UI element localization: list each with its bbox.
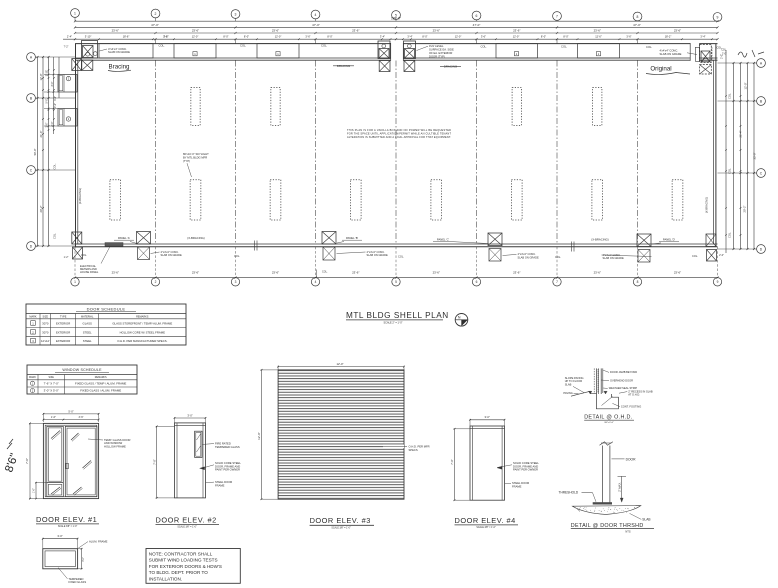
left grid bubbles A-D xyxy=(27,53,38,251)
threshold detail title xyxy=(571,523,654,533)
BRACING label left-center with strike xyxy=(333,64,354,68)
svg-text:5: 5 xyxy=(395,280,397,284)
svg-text:188'-0": 188'-0" xyxy=(391,17,401,21)
svg-text:COL.: COL. xyxy=(240,44,247,48)
door elevation 2 dimensions xyxy=(152,413,206,498)
door elevation 3 note xyxy=(383,444,430,451)
detail at OHD ground and footing xyxy=(571,391,618,409)
svg-text:COL.: COL. xyxy=(81,253,87,257)
column cluster at panel D xyxy=(637,234,651,262)
vanilla box note xyxy=(347,128,451,139)
svg-text:SOLID CORE STEEL: SOLID CORE STEEL xyxy=(513,461,539,465)
door elevation 2 steel door xyxy=(175,423,206,498)
window type detail xyxy=(42,534,108,584)
svg-text:9'x9' LEVEL: 9'x9' LEVEL xyxy=(429,44,444,48)
svg-text:DOOR SCHEDULE: DOOR SCHEDULE xyxy=(87,306,126,311)
svg-text:7'-0": 7'-0" xyxy=(152,459,156,464)
svg-text:TO BLDG. DEPT. PRIOR TO: TO BLDG. DEPT. PRIOR TO xyxy=(149,570,208,575)
svg-text:1'-6": 1'-6" xyxy=(34,488,36,493)
bottom dimension line xyxy=(74,270,719,279)
svg-text:TEMPERED: TEMPERED xyxy=(69,577,84,581)
svg-text:SCALE 3/8" = 1'-0": SCALE 3/8" = 1'-0" xyxy=(177,526,197,529)
svg-text:2" MAX.: 2" MAX. xyxy=(617,482,621,492)
svg-text:3'-0": 3'-0" xyxy=(485,415,490,419)
svg-text:(X-BRACING): (X-BRACING) xyxy=(187,236,204,240)
svg-text:2'-4": 2'-4" xyxy=(67,35,72,39)
window unit on left wall lower xyxy=(58,109,77,127)
svg-text:COL.: COL. xyxy=(728,168,732,174)
handwritten markup Original xyxy=(646,66,690,75)
svg-text:DETAIL @ DOOR THRSHD: DETAIL @ DOOR THRSHD xyxy=(571,523,644,529)
right dimension lines xyxy=(718,50,756,253)
svg-text:7'-6" X 7'-0": 7'-6" X 7'-0" xyxy=(44,381,59,385)
svg-text:2'-0": 2'-0" xyxy=(54,103,57,108)
svg-text:1'-2": 1'-2" xyxy=(64,256,69,259)
svg-text:PANEL 'B': PANEL 'B' xyxy=(346,236,359,240)
column cluster near grid 9 with exterior door xyxy=(695,45,727,75)
svg-text:23'-6": 23'-6" xyxy=(674,28,681,32)
title MTL BLDG SHELL PLAN xyxy=(346,311,449,325)
svg-text:FOR THE SPACE UNTIL APPLICATIO: FOR THE SPACE UNTIL APPLICATION/PERMIT W… xyxy=(347,132,451,136)
svg-text:COL.: COL. xyxy=(321,44,328,48)
svg-text:3'-4": 3'-4" xyxy=(700,35,705,39)
svg-text:SLAB: SLAB xyxy=(565,382,572,386)
handwritten markup Bracing xyxy=(108,64,131,72)
svg-text:3'-0": 3'-0" xyxy=(57,534,62,538)
svg-text:COL.: COL. xyxy=(53,163,57,169)
svg-text:12'-0": 12'-0" xyxy=(455,35,462,39)
svg-text:(TYP): (TYP) xyxy=(183,159,190,163)
top dimension line 47'-0" tier xyxy=(74,23,719,29)
svg-text:OVERHEAD DOOR: OVERHEAD DOOR xyxy=(610,379,633,383)
svg-text:NTS: NTS xyxy=(625,529,630,533)
svg-text:SIZE: SIZE xyxy=(43,315,49,318)
svg-text:FIXED GLASS / TEMP / ALUM. FRA: FIXED GLASS / TEMP / ALUM. FRAME xyxy=(75,381,126,385)
svg-text:COL.: COL. xyxy=(481,44,488,48)
svg-text:23'-6": 23'-6" xyxy=(352,28,359,32)
panel C label xyxy=(433,238,488,244)
svg-text:8: 8 xyxy=(637,280,639,284)
top dimension line detail tier xyxy=(63,35,719,41)
svg-text:DOOR, FRAME AND: DOOR, FRAME AND xyxy=(513,464,538,468)
svg-text:12'-0": 12'-0" xyxy=(39,74,43,81)
svg-text:47'-0": 47'-0" xyxy=(473,23,481,27)
svg-text:COL.: COL. xyxy=(159,44,166,48)
svg-text:TEMPERED GLASS: TEMPERED GLASS xyxy=(215,445,240,449)
svg-text:EXTERIOR: EXTERIOR xyxy=(56,339,70,343)
svg-text:12'-0": 12'-0" xyxy=(595,35,602,39)
door elevation 1 note xyxy=(88,438,130,449)
svg-text:SCALE 3/8" = 1'-0": SCALE 3/8" = 1'-0" xyxy=(476,526,496,529)
svg-text:6: 6 xyxy=(476,14,478,18)
svg-text:PANEL 'A': PANEL 'A' xyxy=(118,236,131,240)
svg-text:8: 8 xyxy=(637,15,639,19)
threshold detail door label xyxy=(612,457,637,461)
svg-text:7: 7 xyxy=(556,14,558,18)
svg-text:SPECS: SPECS xyxy=(409,448,418,452)
svg-text:GLASS: GLASS xyxy=(83,322,92,326)
svg-text:7: 7 xyxy=(556,280,558,284)
svg-text:3'-6": 3'-6" xyxy=(626,35,631,39)
svg-text:3'-0": 3'-0" xyxy=(83,557,85,562)
svg-text:COL.: COL. xyxy=(646,45,653,49)
svg-text:MARK: MARK xyxy=(29,376,36,379)
top dimension line overall 188'-0" xyxy=(74,17,719,23)
svg-text:SLAB: SLAB xyxy=(642,518,650,522)
svg-text:5'-0": 5'-0" xyxy=(68,409,73,413)
door elevation 4 dimensions xyxy=(450,415,505,501)
column cluster left of panel B xyxy=(322,232,336,261)
window schedule table xyxy=(27,365,137,394)
door elevation 3 title xyxy=(310,516,374,529)
svg-text:3'-6": 3'-6" xyxy=(305,35,310,39)
door elevation 3 dimensions xyxy=(257,362,405,500)
svg-text:23'-6": 23'-6" xyxy=(192,28,199,32)
door elevation 2 notes xyxy=(200,441,242,487)
svg-text:3070: 3070 xyxy=(42,322,49,326)
svg-text:3'-10": 3'-10" xyxy=(85,35,92,39)
svg-text:DOOR ELEV. #3: DOOR ELEV. #3 xyxy=(310,516,371,525)
storefront window bay 1-2 xyxy=(99,44,153,58)
skylights dashed lower row xyxy=(110,180,683,220)
svg-text:12'-0": 12'-0" xyxy=(257,432,261,440)
pen squiggle top-right xyxy=(738,50,764,57)
svg-text:COL.: COL. xyxy=(717,46,723,49)
svg-text:3'-6": 3'-6" xyxy=(481,35,486,39)
svg-text:8'-0": 8'-0" xyxy=(422,35,427,39)
left dimension texts xyxy=(33,46,68,260)
svg-text:O.H.D. PER MANUFACTURER SPECS.: O.H.D. PER MANUFACTURER SPECS. xyxy=(117,339,167,343)
storefront window opening 5 xyxy=(578,44,620,58)
svg-text:3'-4": 3'-4" xyxy=(380,35,385,39)
svg-text:MARK: MARK xyxy=(29,315,37,318)
svg-text:2: 2 xyxy=(155,280,157,284)
column cluster bottom-right corner xyxy=(706,234,717,261)
svg-text:DOOR (TYP): DOOR (TYP) xyxy=(429,54,445,58)
svg-text:23'-6": 23'-6" xyxy=(272,270,279,274)
svg-text:DOOR: DOOR xyxy=(626,457,637,461)
top wall of building xyxy=(75,43,718,61)
column cluster at grid 2 bottom xyxy=(137,232,151,260)
svg-text:8'-0": 8'-0" xyxy=(541,35,546,39)
svg-text:TYPE: TYPE xyxy=(60,315,67,318)
svg-text:3'-0" X 5'-0": 3'-0" X 5'-0" xyxy=(44,389,59,393)
svg-text:THIS PLAN IS FOR A VANILLA BOX: THIS PLAN IS FOR A VANILLA BOX AND NO PO… xyxy=(347,128,451,132)
top dimension line 23'-6" tier xyxy=(74,28,719,34)
svg-text:7'-0": 7'-0" xyxy=(450,459,454,464)
note conc slab on grade top-left xyxy=(100,47,131,54)
door elevation 4 title xyxy=(455,516,519,529)
svg-text:N: N xyxy=(458,315,461,319)
door elevation 4 notes xyxy=(497,461,539,489)
svg-text:SCALE 2" = 1'-0": SCALE 2" = 1'-0" xyxy=(384,322,403,325)
svg-text:COL.: COL. xyxy=(53,233,57,239)
svg-text:23'-6": 23'-6" xyxy=(272,28,279,32)
detail at OHD notes xyxy=(563,370,652,408)
svg-text:4: 4 xyxy=(315,280,317,284)
svg-text:23'-6": 23'-6" xyxy=(352,270,359,274)
svg-text:HOLLOW CORE W/ STEEL FRAME: HOLLOW CORE W/ STEEL FRAME xyxy=(120,330,165,334)
svg-text:FOR EXTERIOR DOORS & HDW'S: FOR EXTERIOR DOORS & HDW'S xyxy=(149,564,222,569)
svg-text:HOUSE PANEL: HOUSE PANEL xyxy=(80,270,99,274)
svg-text:O.H.D. PER MFR: O.H.D. PER MFR xyxy=(409,444,430,448)
svg-text:STEEL DOOR: STEEL DOOR xyxy=(215,480,232,484)
svg-text:47'-0": 47'-0" xyxy=(633,23,641,27)
svg-text:4"x4'x4" CONC.: 4"x4'x4" CONC. xyxy=(108,47,127,51)
svg-text:SLAB ON GRADE: SLAB ON GRADE xyxy=(108,50,130,54)
contractor note box xyxy=(146,549,240,584)
svg-text:STEEL: STEEL xyxy=(83,330,92,334)
svg-text:23'-6": 23'-6" xyxy=(192,270,199,274)
svg-text:ALUM. FRAME: ALUM. FRAME xyxy=(89,539,108,543)
column cluster at panel C xyxy=(488,233,502,261)
wall joint ticks bottom wall xyxy=(255,241,575,252)
storefront window opening 3 xyxy=(257,44,299,58)
bottom wall of building xyxy=(75,244,718,247)
svg-text:1'-6": 1'-6" xyxy=(51,416,56,419)
window unit on left wall upper xyxy=(58,75,77,93)
svg-text:FRAME: FRAME xyxy=(512,485,522,489)
svg-text:DOOR ELEV. #2: DOOR ELEV. #2 xyxy=(156,515,217,524)
conc slab notes bottom wall xyxy=(151,250,652,260)
svg-text:SLAB ON GRADE: SLAB ON GRADE xyxy=(518,255,539,259)
svg-text:FIXED GLASS / ALUM. FRAME: FIXED GLASS / ALUM. FRAME xyxy=(80,389,121,393)
left wall of building xyxy=(76,44,78,247)
svg-text:FIRE RATED: FIRE RATED xyxy=(215,441,231,445)
storefront window opening 4 xyxy=(496,44,538,58)
svg-text:SLAB ON GRADE: SLAB ON GRADE xyxy=(660,52,682,56)
svg-text:23'-6": 23'-6" xyxy=(594,270,601,274)
right dimension texts xyxy=(719,54,756,257)
svg-text:12'-0": 12'-0" xyxy=(275,35,282,39)
svg-text:STEEL DOOR: STEEL DOOR xyxy=(512,481,529,485)
svg-text:COL.: COL. xyxy=(234,254,240,258)
svg-text:COL.: COL. xyxy=(555,255,561,259)
svg-text:(X-BRACING): (X-BRACING) xyxy=(591,237,608,241)
threshold detail door bar xyxy=(600,442,613,504)
svg-text:EXTERIOR: EXTERIOR xyxy=(56,322,70,326)
svg-text:1: 1 xyxy=(74,280,76,284)
svg-text:4'x4'x4" CONC.: 4'x4'x4" CONC. xyxy=(660,49,679,53)
svg-text:PANEL 'D': PANEL 'D' xyxy=(663,238,676,242)
svg-text:8'-0": 8'-0" xyxy=(327,35,332,39)
electrical panel on bottom wall xyxy=(80,243,123,275)
svg-text:3'-6": 3'-6" xyxy=(79,416,84,419)
svg-text:SLAB ON GRADE: SLAB ON GRADE xyxy=(603,256,624,260)
svg-text:WINDOW SCHEDULE: WINDOW SCHEDULE xyxy=(62,368,102,372)
BRACING label right-center with strike xyxy=(440,65,461,69)
svg-text:3070: 3070 xyxy=(42,330,49,334)
svg-text:20'-2": 20'-2" xyxy=(39,206,43,213)
svg-text:5'-0": 5'-0" xyxy=(45,98,48,103)
svg-text:PAINT PER OWNER: PAINT PER OWNER xyxy=(215,468,240,472)
panel B label xyxy=(337,236,362,243)
svg-text:THRESHOLD: THRESHOLD xyxy=(559,491,579,495)
svg-text:AND WINDOW: AND WINDOW xyxy=(104,441,123,445)
note conc slab on grade top-right xyxy=(660,49,698,56)
top grid bubbles 1-9 xyxy=(71,9,722,22)
svg-text:12'-0": 12'-0" xyxy=(192,35,199,39)
svg-text:12'x12': 12'x12' xyxy=(41,339,50,343)
svg-text:PANEL 'C': PANEL 'C' xyxy=(437,238,450,242)
svg-text:23'-6": 23'-6" xyxy=(674,270,681,274)
door elevation 1 title xyxy=(36,515,99,528)
svg-text:COL.: COL. xyxy=(398,254,404,258)
left dimension lines xyxy=(37,56,76,247)
column pair at grid 5 with exterior door xyxy=(378,41,416,72)
svg-text:50'-0": 50'-0" xyxy=(33,149,37,156)
svg-text:1: 1 xyxy=(74,11,76,15)
svg-text:47'-0": 47'-0" xyxy=(312,23,320,27)
svg-text:SCALE 3/8" = 1'-0": SCALE 3/8" = 1'-0" xyxy=(58,525,78,528)
svg-text:COL.: COL. xyxy=(728,93,732,99)
svg-text:23'-6": 23'-6" xyxy=(433,28,440,32)
detail at OHD title xyxy=(584,415,634,424)
handwritten 8'-6 markup xyxy=(3,439,21,474)
svg-text:9: 9 xyxy=(717,15,719,19)
svg-text:MTL BLDG SHELL PLAN: MTL BLDG SHELL PLAN xyxy=(346,311,449,320)
svg-text:SLAB ON GRADE: SLAB ON GRADE xyxy=(161,253,182,257)
door elevation 4 steel door xyxy=(470,426,505,500)
skylight note xyxy=(183,152,209,177)
svg-text:CONT. FOOTING: CONT. FOOTING xyxy=(621,404,641,408)
panel A label xyxy=(114,236,137,244)
svg-text:18'-6": 18'-6" xyxy=(123,35,130,39)
svg-text:GLASS STOREFRONT / TEMP/ ALUM.: GLASS STOREFRONT / TEMP/ ALUM. FRAME xyxy=(112,322,172,326)
threshold detail slab section xyxy=(573,506,651,522)
svg-text:NOTE: CONTRACTOR SHALL: NOTE: CONTRACTOR SHALL xyxy=(149,551,213,556)
svg-text:DOOR, FRAME AND: DOOR, FRAME AND xyxy=(215,464,240,468)
svg-text:DOOR JAMB BEYOND: DOOR JAMB BEYOND xyxy=(610,370,637,374)
right wall of building xyxy=(714,44,716,247)
svg-text:HOLLOW FRAME: HOLLOW FRAME xyxy=(104,445,126,449)
svg-text:8'-0": 8'-0" xyxy=(563,35,568,39)
COL. labels top wall xyxy=(156,39,723,49)
svg-text:BY MTL BLDG MFR: BY MTL BLDG MFR xyxy=(183,155,207,159)
svg-text:23'-6": 23'-6" xyxy=(433,270,440,274)
door elevation 3 overhead door xyxy=(278,370,404,499)
north arrow symbol xyxy=(455,314,468,327)
svg-text:REMARKS: REMARKS xyxy=(136,315,149,318)
svg-text:23'-6": 23'-6" xyxy=(112,28,119,32)
svg-text:2'-0": 2'-0" xyxy=(721,54,724,59)
x-bracing labels bottom wall xyxy=(187,236,608,241)
svg-text:EXTERIOR: EXTERIOR xyxy=(56,330,70,334)
svg-text:AT O.H.D.: AT O.H.D. xyxy=(628,393,640,397)
svg-text:3'-0": 3'-0" xyxy=(187,413,192,417)
svg-text:COL.: COL. xyxy=(561,44,568,48)
COL. labels bottom wall xyxy=(75,247,718,278)
svg-text:COL.: COL. xyxy=(692,254,698,258)
svg-text:3/4"=1'-0": 3/4"=1'-0" xyxy=(604,422,614,424)
svg-text:INSTALLATION.: INSTALLATION. xyxy=(149,576,182,581)
svg-text:8'-0": 8'-0" xyxy=(244,35,249,39)
detail at OHD jamb section xyxy=(594,368,603,394)
svg-text:PAINT PER OWNER: PAINT PER OWNER xyxy=(513,468,538,472)
door elevation 1 dimensions xyxy=(25,409,99,499)
svg-text:FIXED GLASS: FIXED GLASS xyxy=(69,580,87,584)
svg-text:COL.: COL. xyxy=(728,232,732,238)
svg-text:21'-4": 21'-4" xyxy=(39,131,43,138)
svg-text:DOOR ELEV. #1: DOOR ELEV. #1 xyxy=(36,515,97,524)
svg-text:23'-6": 23'-6" xyxy=(112,270,119,274)
bottom grid bubbles xyxy=(71,278,722,286)
svg-text:3: 3 xyxy=(235,280,237,284)
svg-text:12'-0": 12'-0" xyxy=(744,83,748,90)
svg-text:MATERIAL: MATERIAL xyxy=(81,315,94,318)
threshold detail max dimension xyxy=(617,476,626,502)
svg-text:23'-6": 23'-6" xyxy=(513,28,520,32)
svg-text:2: 2 xyxy=(155,12,157,16)
svg-text:ALTERATION IS SUBMITTED AND A: ALTERATION IS SUBMITTED AND A FINAL APPR… xyxy=(347,135,451,139)
svg-text:PAVING: PAVING xyxy=(563,391,572,395)
svg-text:7'-2": 7'-2" xyxy=(64,46,69,49)
svg-text:20'-2": 20'-2" xyxy=(743,206,747,213)
column cluster bottom-left corner xyxy=(72,232,83,259)
svg-text:80'x10'-0" SKYLIGHT: 80'x10'-0" SKYLIGHT xyxy=(183,152,209,156)
svg-text:(X-BRACING): (X-BRACING) xyxy=(705,197,709,213)
note level surface at grid 5 xyxy=(417,44,454,58)
door elevation 2 title xyxy=(156,515,220,528)
svg-text:COL.: COL. xyxy=(322,271,328,274)
svg-text:(X-BRACING): (X-BRACING) xyxy=(78,188,82,204)
svg-text:OF EA. EXTERIOR: OF EA. EXTERIOR xyxy=(429,51,452,55)
svg-text:SCALE 3/8" = 1'-0": SCALE 3/8" = 1'-0" xyxy=(331,526,351,529)
svg-text:21'-4": 21'-4" xyxy=(739,131,743,138)
svg-text:SOLID CORE STEEL: SOLID CORE STEEL xyxy=(215,461,241,465)
svg-text:35'-0": 35'-0" xyxy=(753,153,757,160)
svg-text:STEEL: STEEL xyxy=(83,339,92,343)
svg-text:DOOR ELEV. #4: DOOR ELEV. #4 xyxy=(455,516,516,525)
svg-text:4: 4 xyxy=(315,13,317,17)
threshold detail threshold label and bar xyxy=(559,491,613,505)
svg-text:Original: Original xyxy=(650,66,671,73)
svg-text:9: 9 xyxy=(717,280,719,284)
svg-text:3'-0": 3'-0" xyxy=(54,96,57,101)
left wall dims between windows xyxy=(44,57,58,134)
svg-text:3: 3 xyxy=(235,12,237,16)
column cluster at grid 1 top-left corner xyxy=(72,41,98,71)
right grid bubbles A-D xyxy=(754,59,765,254)
storefront window opening 2 xyxy=(174,44,216,58)
svg-text:SLAB ON GRADE: SLAB ON GRADE xyxy=(367,253,388,257)
svg-text:18'-2": 18'-2" xyxy=(665,35,672,39)
skylights dashed upper row xyxy=(191,88,602,126)
svg-text:2'-0": 2'-0" xyxy=(719,254,724,257)
svg-text:23'-6": 23'-6" xyxy=(594,28,601,32)
door elevation 1 storefront double unit xyxy=(43,423,98,498)
svg-text:FRAME: FRAME xyxy=(215,483,225,487)
door schedule table xyxy=(26,304,186,345)
svg-text:3'-6": 3'-6" xyxy=(163,35,168,39)
svg-text:23'-6": 23'-6" xyxy=(513,270,520,274)
svg-text:SIZE: SIZE xyxy=(49,376,55,379)
svg-text:6: 6 xyxy=(476,280,478,284)
svg-text:DETAIL @ O.H.D.: DETAIL @ O.H.D. xyxy=(584,415,632,421)
svg-text:47'-0": 47'-0" xyxy=(151,23,159,27)
svg-text:REMARKS: REMARKS xyxy=(95,376,107,379)
svg-text:8'-0": 8'-0" xyxy=(223,35,228,39)
svg-text:7'-0": 7'-0" xyxy=(25,458,29,464)
svg-text:SURFACE EA. SIDE: SURFACE EA. SIDE xyxy=(429,47,454,51)
svg-text:TEMP. GLASS DOOR: TEMP. GLASS DOOR xyxy=(104,438,130,442)
svg-text:12'-0": 12'-0" xyxy=(336,362,343,366)
svg-text:Bracing: Bracing xyxy=(109,64,131,71)
svg-text:3'-4": 3'-4" xyxy=(407,35,412,39)
panel D label xyxy=(652,238,679,245)
interior column grid lines xyxy=(156,61,638,244)
svg-text:SUBMIT WIND LOADING TESTS: SUBMIT WIND LOADING TESTS xyxy=(149,558,218,563)
